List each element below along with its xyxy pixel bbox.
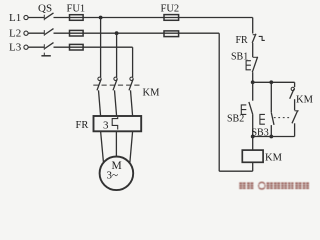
wire SB1 to node A	[252, 72, 254, 82]
contactor KM main contacts mechanical link (dashed)	[93, 84, 141, 86]
node junction dot line2	[115, 31, 119, 35]
wire L1 QS to corner (through FU1, FU2)	[54, 17, 253, 19]
svg-text:3~: 3~	[107, 170, 119, 182]
node junction dot line1	[99, 16, 103, 20]
fuse FU1 pole 2	[70, 30, 84, 36]
wire FR box to motor middle	[115, 131, 117, 156]
pushbutton SB3 NO contact (jog)	[260, 113, 274, 125]
thermal relay FR heater box	[94, 116, 142, 131]
pushbutton SB3 mechanical link (dashed)	[274, 117, 291, 119]
wire right branch from top rail	[294, 82, 296, 87]
node L3 terminal	[24, 45, 28, 49]
wire bottom return	[219, 170, 253, 172]
fuse FU2 pole 1	[164, 15, 179, 21]
node C dot	[251, 135, 255, 139]
wire node A to SB2	[252, 82, 254, 100]
contactor KM main contact 3	[129, 77, 133, 116]
svg-text:FR: FR	[236, 35, 249, 46]
node A dot	[251, 80, 255, 84]
svg-text:L3: L3	[9, 42, 22, 54]
svg-text:FR: FR	[76, 120, 89, 131]
wire KM coil to bottom	[252, 162, 254, 171]
svg-text:SB1: SB1	[231, 52, 248, 63]
wire node B to SB3	[270, 82, 272, 112]
svg-text:SB2: SB2	[227, 114, 244, 125]
wire L1 to QS	[28, 17, 44, 19]
svg-text:FU1: FU1	[67, 4, 86, 15]
contactor KM main contact 2	[113, 77, 117, 116]
switch QS pole 3 blade	[45, 43, 54, 49]
wire branch V down	[116, 33, 118, 77]
switch QS linkage dashed line	[43, 15, 45, 56]
wire FR box to motor right	[130, 131, 133, 163]
node B dot	[269, 80, 273, 84]
svg-text:FU2: FU2	[161, 4, 180, 15]
thermal relay FR heater symbol	[112, 117, 118, 130]
wire top rail of parallel group	[253, 81, 295, 83]
svg-text:L2: L2	[9, 28, 21, 40]
svg-text:L1: L1	[9, 12, 21, 24]
pushbutton SB3 NC contact	[292, 111, 299, 124]
fuse FU1 pole 1	[70, 15, 84, 21]
node L2 terminal	[24, 31, 28, 35]
node D dot	[269, 135, 273, 139]
wire SB2 to node C	[252, 114, 254, 136]
svg-text:3: 3	[103, 120, 109, 132]
pushbutton SB1 (stop, NC)	[246, 57, 258, 72]
pushbutton SB2 (start, NO)	[241, 102, 252, 115]
wire L2 QS to corner (through FU1, FU2)	[54, 32, 220, 34]
fuse FU1 pole 3	[70, 44, 84, 50]
wire branch W down	[132, 47, 134, 77]
wire L3 to QS	[28, 46, 44, 48]
switch QS pole 1 blade	[45, 13, 54, 19]
coil KM	[242, 150, 263, 162]
wire L2 to QS	[28, 32, 44, 34]
fuse FU2 pole 2	[164, 31, 179, 37]
wire node C to KM coil	[252, 137, 254, 151]
wire SB3 to node D	[270, 125, 272, 136]
wire SB3 NC to bottom rail	[294, 123, 296, 136]
wire branch U down	[100, 18, 102, 78]
wire left control rail up to line2	[218, 33, 220, 171]
svg-text:KM: KM	[265, 153, 283, 164]
wire bottom rail of parallel group	[253, 136, 295, 138]
wire line1 corner down to FR contact	[252, 18, 254, 34]
wire KM aux to SB3 NC	[294, 99, 296, 110]
switch QS handle bar	[41, 55, 50, 57]
switch QS pole 2 blade	[45, 29, 54, 35]
contactor KM main contact 1	[97, 77, 101, 116]
watermark 头条@全球电气资源	[239, 182, 309, 189]
svg-text:SB3: SB3	[252, 128, 269, 139]
svg-text:KM: KM	[296, 95, 314, 106]
thermal relay FR NC contact	[252, 34, 265, 43]
wire FR box to motor left	[101, 131, 104, 163]
wire L3 QS to corner	[54, 46, 133, 48]
svg-text:QS: QS	[38, 3, 52, 15]
contactor KM auxiliary NO contact	[290, 87, 295, 99]
svg-text:KM: KM	[143, 88, 161, 99]
motor M circle	[100, 157, 134, 191]
node L1 terminal	[24, 15, 28, 19]
wire FR to SB1	[252, 43, 254, 57]
